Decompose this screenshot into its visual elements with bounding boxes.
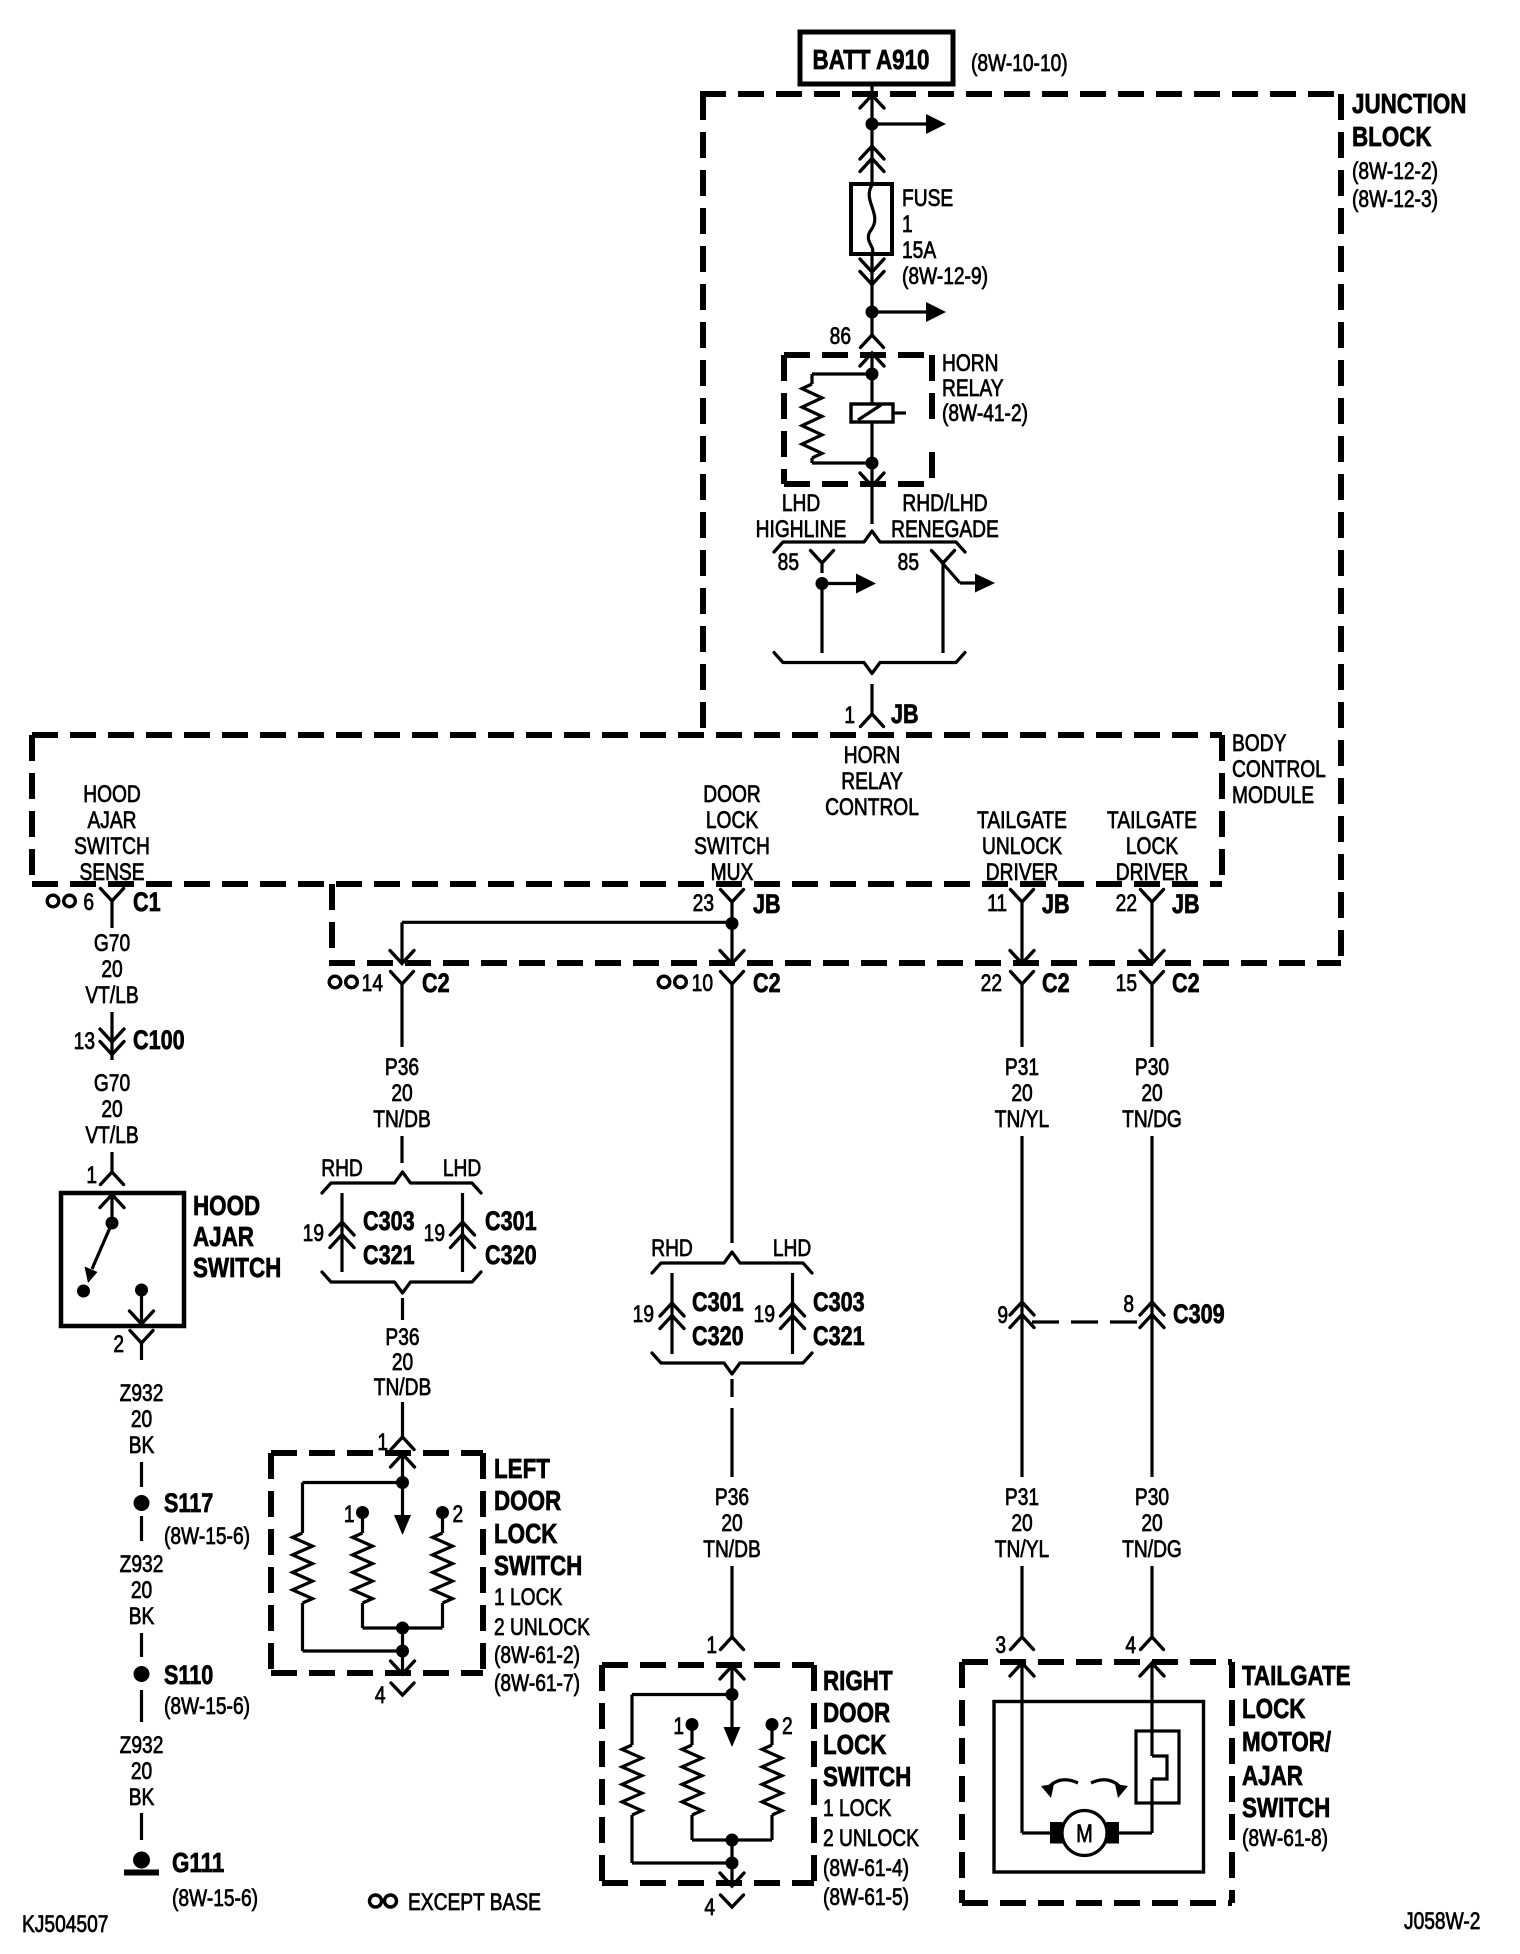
svg-text:(8W-61-5): (8W-61-5)	[823, 1883, 909, 1911]
svg-text:2: 2	[453, 1500, 464, 1528]
svg-text:20: 20	[101, 1095, 122, 1123]
left door lock switch pin 1	[401, 1419, 404, 1437]
svg-text:1 LOCK: 1 LOCK	[494, 1583, 563, 1611]
svg-text:VT/LB: VT/LB	[85, 1121, 138, 1149]
svg-text:10: 10	[692, 969, 713, 997]
svg-text:C2: C2	[1042, 969, 1070, 999]
tailgate inner box	[994, 1702, 1204, 1873]
svg-text:C320: C320	[692, 1322, 744, 1352]
svg-text:DRIVER: DRIVER	[986, 858, 1058, 886]
svg-text:85: 85	[898, 548, 919, 576]
svg-text:LHD: LHD	[782, 489, 820, 517]
wire P36 col2 upper	[400, 1001, 403, 1047]
wire to column 2 drop	[402, 921, 732, 924]
left door lock switch dashed box	[271, 1450, 483, 1456]
svg-text:AJAR: AJAR	[87, 806, 136, 834]
svg-text:MUX: MUX	[711, 858, 754, 886]
svg-text:13: 13	[74, 1027, 95, 1055]
LHD branch chevrons 19 C301 C320	[461, 1193, 464, 1272]
svg-text:19: 19	[303, 1219, 324, 1247]
svg-text:J058W-2: J058W-2	[1404, 1907, 1480, 1935]
svg-text:LOCK: LOCK	[1126, 832, 1179, 860]
svg-text:P30: P30	[1135, 1483, 1169, 1511]
svg-text:Z932: Z932	[120, 1379, 164, 1407]
RHD branch chevrons 19 C301 C320	[670, 1273, 673, 1354]
svg-text:1: 1	[344, 1500, 355, 1528]
relay coil	[870, 374, 873, 404]
svg-text:SWITCH: SWITCH	[193, 1253, 281, 1284]
wire P30 col5	[1150, 1001, 1153, 1047]
svg-text:DOOR: DOOR	[494, 1486, 561, 1517]
svg-text:UNLOCK: UNLOCK	[982, 832, 1062, 860]
relay contact-side resistor	[812, 372, 872, 375]
svg-text:SENSE: SENSE	[79, 858, 144, 886]
splice S117	[134, 1495, 150, 1511]
svg-text:EXCEPT BASE: EXCEPT BASE	[408, 1888, 541, 1916]
tailgate pin chevrons	[1010, 1663, 1034, 1676]
svg-text:15A: 15A	[902, 236, 937, 264]
LHD branch chevrons 19 C303 C321	[791, 1273, 794, 1354]
svg-text:LHD: LHD	[443, 1154, 481, 1182]
svg-text:20: 20	[101, 955, 122, 983]
svg-text:RELAY: RELAY	[841, 767, 903, 795]
svg-text:HOOD: HOOD	[193, 1191, 260, 1222]
connector 10 C2	[658, 976, 670, 988]
splice S110	[134, 1666, 150, 1682]
svg-text:C2: C2	[1172, 969, 1200, 999]
svg-text:G70: G70	[94, 1069, 130, 1097]
svg-text:RHD: RHD	[321, 1154, 363, 1182]
svg-text:(8W-12-3): (8W-12-3)	[1352, 185, 1438, 213]
svg-text:HIGHLINE: HIGHLINE	[756, 515, 847, 543]
svg-text:DRIVER: DRIVER	[1116, 858, 1188, 886]
svg-text:CONTROL: CONTROL	[1232, 755, 1326, 783]
variant brace lower col3	[652, 1353, 812, 1374]
svg-text:20: 20	[1011, 1509, 1032, 1537]
svg-text:MOTOR/: MOTOR/	[1242, 1727, 1331, 1758]
svg-text:C309: C309	[1173, 1300, 1225, 1330]
wire G70 to C100	[110, 919, 113, 928]
svg-text:14: 14	[362, 969, 383, 997]
connector 6 C1 hood ajar sense	[47, 895, 59, 907]
svg-text:LOCK: LOCK	[1242, 1694, 1306, 1725]
RHD branch chevrons 19 C303 C321	[340, 1193, 343, 1272]
wire to JB pin 1	[870, 684, 873, 714]
svg-text:85: 85	[778, 548, 799, 576]
wire 23 JB to C2	[730, 924, 733, 964]
svg-text:C301: C301	[485, 1207, 537, 1237]
motor rotation arrows	[1046, 1780, 1078, 1790]
svg-text:1: 1	[902, 210, 913, 238]
svg-text:C1: C1	[133, 888, 161, 918]
svg-text:19: 19	[754, 1300, 775, 1328]
svg-text:TN/DB: TN/DB	[703, 1535, 761, 1563]
svg-text:6: 6	[83, 888, 94, 916]
svg-text:JB: JB	[1172, 890, 1200, 920]
lock motor M	[1062, 1811, 1107, 1856]
svg-text:HOOD: HOOD	[83, 780, 141, 808]
svg-text:BK: BK	[129, 1431, 155, 1459]
svg-text:SWITCH: SWITCH	[694, 832, 770, 860]
svg-text:VT/LB: VT/LB	[85, 981, 138, 1009]
svg-text:1: 1	[86, 1161, 97, 1189]
svg-text:23: 23	[693, 889, 714, 917]
svg-text:C2: C2	[422, 969, 450, 999]
svg-text:P36: P36	[715, 1483, 749, 1511]
svg-text:RENEGADE: RENEGADE	[891, 515, 999, 543]
svg-text:C320: C320	[485, 1241, 537, 1271]
svg-text:C100: C100	[133, 1026, 185, 1056]
svg-text:C2: C2	[753, 969, 781, 999]
svg-text:JB: JB	[753, 890, 781, 920]
svg-text:20: 20	[1011, 1079, 1032, 1107]
dashed link to C309	[1032, 1320, 1142, 1323]
svg-text:JB: JB	[1042, 890, 1070, 920]
brace upper	[774, 531, 965, 552]
connector 14 C2	[329, 976, 341, 988]
svg-text:C303: C303	[363, 1207, 415, 1237]
svg-text:TN/DG: TN/DG	[1122, 1535, 1182, 1563]
svg-text:C321: C321	[363, 1241, 415, 1271]
ground G111	[133, 1852, 150, 1869]
svg-text:P36: P36	[385, 1053, 419, 1081]
svg-text:P31: P31	[1005, 1053, 1039, 1081]
svg-text:SWITCH: SWITCH	[494, 1551, 582, 1582]
svg-text:Z932: Z932	[120, 1550, 164, 1578]
junction under 23 JB	[726, 917, 739, 930]
svg-text:LOCK: LOCK	[494, 1519, 558, 1550]
svg-text:15: 15	[1116, 969, 1137, 997]
svg-text:KJ504507: KJ504507	[22, 1910, 108, 1938]
svg-text:P31: P31	[1005, 1483, 1039, 1511]
svg-text:TN/DB: TN/DB	[373, 1105, 431, 1133]
svg-text:TAILGATE: TAILGATE	[1242, 1661, 1351, 1692]
hood ajar switch box	[61, 1193, 184, 1326]
svg-text:3: 3	[995, 1631, 1006, 1659]
svg-text:4: 4	[375, 1681, 386, 1709]
svg-text:TN/YL: TN/YL	[995, 1105, 1049, 1133]
svg-text:20: 20	[392, 1348, 413, 1376]
svg-text:2: 2	[113, 1330, 124, 1358]
variant brace upper col3	[652, 1252, 812, 1273]
svg-text:C303: C303	[813, 1288, 865, 1318]
connector 22 JB tailgate lock	[1141, 890, 1164, 903]
svg-text:LOCK: LOCK	[706, 806, 759, 834]
svg-text:SWITCH: SWITCH	[823, 1762, 911, 1793]
svg-text:(8W-10-10): (8W-10-10)	[971, 49, 1068, 77]
motor supply wire pin 3	[1020, 1663, 1023, 1833]
svg-text:S110: S110	[164, 1661, 213, 1691]
svg-text:(8W-61-2): (8W-61-2)	[494, 1641, 580, 1669]
svg-text:C321: C321	[813, 1322, 865, 1352]
svg-text:(8W-15-6): (8W-15-6)	[164, 1692, 250, 1720]
svg-text:G111: G111	[172, 1848, 224, 1879]
svg-text:4: 4	[1125, 1631, 1136, 1659]
junction node with feed arrow	[866, 118, 879, 131]
svg-text:AJAR: AJAR	[193, 1222, 254, 1253]
svg-text:TAILGATE: TAILGATE	[977, 806, 1067, 834]
svg-text:1: 1	[844, 701, 855, 729]
svg-text:(8W-61-4): (8W-61-4)	[823, 1854, 909, 1882]
svg-text:2 UNLOCK: 2 UNLOCK	[494, 1613, 590, 1641]
svg-text:S117: S117	[164, 1489, 213, 1519]
svg-text:20: 20	[131, 1576, 152, 1604]
svg-text:2: 2	[782, 1712, 793, 1740]
svg-text:LEFT: LEFT	[494, 1454, 550, 1485]
battery feed box BATT A910	[800, 32, 953, 84]
svg-text:(8W-12-2): (8W-12-2)	[1352, 157, 1438, 185]
svg-text:19: 19	[424, 1219, 445, 1247]
svg-text:BODY: BODY	[1232, 729, 1287, 757]
tailgate pin 4	[1141, 1637, 1164, 1650]
svg-text:22: 22	[1116, 889, 1137, 917]
wire into variant brace	[870, 486, 873, 524]
wire from fuse to relay feed node	[870, 254, 873, 312]
svg-text:2 UNLOCK: 2 UNLOCK	[823, 1824, 919, 1852]
svg-text:JUNCTION: JUNCTION	[1352, 89, 1466, 120]
right door lock switch dashed box	[602, 1662, 814, 1668]
svg-text:TN/DB: TN/DB	[374, 1373, 432, 1401]
svg-text:20: 20	[131, 1757, 152, 1785]
svg-text:8: 8	[1123, 1290, 1134, 1318]
svg-text:AJAR: AJAR	[1242, 1761, 1303, 1792]
svg-text:HORN: HORN	[844, 741, 900, 769]
ajar switch wire pin 4	[1150, 1663, 1153, 1756]
svg-text:LHD: LHD	[773, 1234, 811, 1262]
svg-text:(8W-61-7): (8W-61-7)	[494, 1669, 580, 1697]
wire P36 col2 lower	[401, 1298, 404, 1320]
svg-text:TN/DG: TN/DG	[1122, 1105, 1182, 1133]
svg-text:19: 19	[633, 1300, 654, 1328]
svg-text:11: 11	[987, 889, 1007, 917]
wire P36 col3 lower	[730, 1379, 733, 1397]
svg-text:BATT A910: BATT A910	[813, 45, 930, 76]
svg-text:22: 22	[981, 969, 1002, 997]
svg-text:MODULE: MODULE	[1232, 781, 1314, 809]
svg-text:(8W-15-6): (8W-15-6)	[164, 1522, 250, 1550]
svg-text:RHD: RHD	[651, 1234, 693, 1262]
svg-text:(8W-41-2): (8W-41-2)	[942, 399, 1028, 427]
connector 11 JB tailgate unlock	[1011, 890, 1034, 903]
right door lock switch pin 1	[721, 1637, 744, 1650]
svg-text:DOOR: DOOR	[823, 1698, 890, 1729]
svg-text:1: 1	[673, 1712, 684, 1740]
svg-text:TAILGATE: TAILGATE	[1107, 806, 1197, 834]
svg-text:1 LOCK: 1 LOCK	[823, 1794, 892, 1822]
variant brace lower col2	[322, 1272, 481, 1293]
svg-text:RHD/LHD: RHD/LHD	[902, 489, 987, 517]
wire P31 col4 upper	[1020, 1001, 1023, 1047]
svg-text:TN/YL: TN/YL	[995, 1535, 1049, 1563]
svg-text:20: 20	[131, 1405, 152, 1433]
switch internals	[100, 1195, 124, 1208]
inline connector chevrons below node	[860, 146, 884, 159]
tailgate lock motor dashed box	[962, 1659, 1232, 1665]
svg-text:SWITCH: SWITCH	[74, 832, 150, 860]
svg-text:LOCK: LOCK	[823, 1730, 887, 1761]
svg-text:M: M	[1076, 1820, 1093, 1848]
brace lower	[774, 653, 965, 674]
svg-text:20: 20	[391, 1079, 412, 1107]
svg-text:(8W-15-6): (8W-15-6)	[172, 1884, 258, 1912]
svg-text:(8W-61-8): (8W-61-8)	[1242, 1824, 1328, 1852]
ajar switch body	[1136, 1731, 1179, 1803]
relay bottom node	[866, 457, 879, 470]
connector 8 C309	[1140, 1302, 1164, 1315]
svg-text:SWITCH: SWITCH	[1242, 1793, 1330, 1824]
wire from battery into junction block	[870, 84, 873, 124]
fuse 1 15A	[851, 184, 892, 254]
svg-text:CONTROL: CONTROL	[825, 793, 919, 821]
svg-text:Z932: Z932	[120, 1731, 164, 1759]
svg-text:P36: P36	[385, 1323, 419, 1351]
svg-text:20: 20	[721, 1509, 742, 1537]
svg-text:20: 20	[1141, 1509, 1162, 1537]
svg-text:RIGHT: RIGHT	[823, 1666, 893, 1697]
connector 9	[1010, 1302, 1034, 1315]
footnote oo EXCEPT BASE	[370, 1895, 382, 1907]
svg-text:BLOCK: BLOCK	[1352, 122, 1432, 153]
svg-text:DOOR: DOOR	[703, 780, 761, 808]
svg-text:1: 1	[706, 1631, 717, 1659]
svg-text:20: 20	[1141, 1079, 1162, 1107]
junction block dashed outline	[700, 91, 1341, 97]
svg-text:9: 9	[997, 1301, 1008, 1329]
connector 23 JB door lock mux	[721, 890, 744, 903]
svg-text:4: 4	[704, 1893, 715, 1921]
tailgate pin 3	[1011, 1637, 1034, 1650]
variant brace upper col2	[322, 1172, 481, 1193]
svg-text:RELAY: RELAY	[942, 374, 1004, 402]
body control module dashed box	[32, 732, 1222, 738]
connector 1 JB	[861, 714, 884, 727]
svg-text:C301: C301	[692, 1288, 744, 1318]
svg-text:P30: P30	[1135, 1053, 1169, 1081]
svg-text:JB: JB	[891, 700, 919, 730]
svg-text:86: 86	[830, 322, 851, 350]
svg-text:HORN: HORN	[942, 349, 998, 377]
feed node with arrow	[866, 306, 879, 319]
relay top node	[866, 368, 879, 381]
right door lock switch internals	[720, 1666, 744, 1679]
svg-text:FUSE: FUSE	[902, 184, 953, 212]
svg-text:(8W-12-9): (8W-12-9)	[902, 262, 988, 290]
svg-text:BK: BK	[129, 1783, 155, 1811]
horn relay dashed box	[784, 352, 932, 358]
svg-text:BK: BK	[129, 1602, 155, 1630]
svg-text:G70: G70	[94, 929, 130, 957]
left door lock switch internals	[391, 1454, 415, 1467]
wire col3 from C2 down	[730, 1001, 733, 1243]
